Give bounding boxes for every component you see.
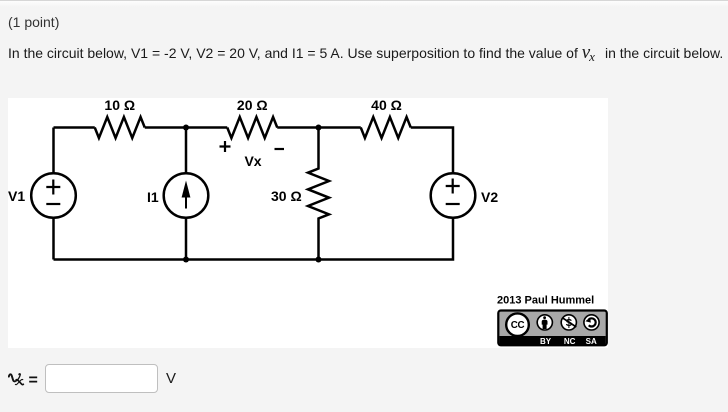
svg-text:BY: BY (540, 337, 552, 346)
svg-text:40 Ω: 40 Ω (371, 98, 402, 113)
svg-text:10 Ω: 10 Ω (104, 98, 135, 113)
svg-text:2013 Paul Hummel: 2013 Paul Hummel (497, 295, 594, 307)
svg-text:SA: SA (586, 337, 597, 346)
svg-text:CC: CC (511, 320, 525, 331)
svg-text:I1: I1 (147, 189, 159, 205)
svg-text:NC: NC (564, 337, 576, 346)
svg-text:20 Ω: 20 Ω (237, 98, 268, 113)
svg-text:V1: V1 (8, 188, 25, 204)
svg-text:Vx: Vx (244, 153, 261, 169)
svg-text:V2: V2 (481, 189, 498, 205)
svg-text:30 Ω: 30 Ω (271, 188, 302, 204)
